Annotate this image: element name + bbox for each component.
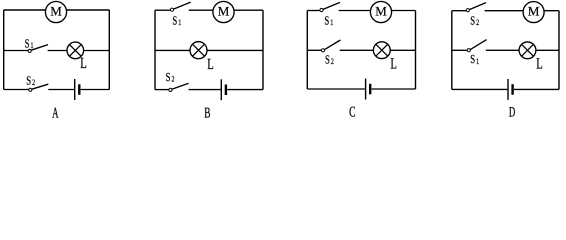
wire: D top edge left segment	[452, 10, 466, 12]
battery (C)	[366, 79, 371, 100]
motor M (C)	[370, 1, 391, 22]
switch S2 (B) pivot	[169, 88, 172, 91]
lamp L (C)	[373, 42, 390, 59]
svg-text:S: S	[25, 38, 30, 51]
label S1 (A)	[25, 38, 34, 51]
wire: C top edge right segment	[339, 10, 416, 12]
wire: D middle branch right segment	[486, 49, 559, 51]
svg-text:M: M	[528, 4, 540, 19]
battery (B)	[221, 79, 226, 100]
wire: A bottom edge right segment	[81, 89, 110, 91]
svg-text:1: 1	[330, 17, 333, 27]
switch S1 (D) blade	[470, 40, 486, 50]
switch S1 (C) blade	[323, 2, 340, 9]
svg-text:M: M	[375, 3, 387, 18]
wire: B bottom edge right segment	[227, 89, 263, 91]
wire: B left edge	[154, 10, 156, 89]
wire: B bottom edge mid segment	[189, 89, 221, 91]
label S1 (D)	[470, 53, 479, 66]
label S1 (B)	[172, 15, 181, 28]
switch S2 (C) blade	[324, 40, 340, 50]
svg-text:S: S	[26, 75, 31, 88]
svg-text:C: C	[349, 103, 355, 120]
wire: C top edge left segment	[307, 10, 320, 12]
lamp L (B)	[190, 42, 207, 59]
svg-text:2: 2	[172, 74, 175, 84]
svg-text:M: M	[50, 3, 62, 18]
wire: D bottom edge right segment	[514, 88, 559, 90]
label S1 (C)	[324, 14, 333, 27]
wire: B top edge right segment	[189, 9, 263, 11]
switch S2 (D) pivot	[466, 9, 469, 12]
svg-text:S: S	[470, 14, 475, 27]
label S2 (B)	[166, 71, 175, 84]
switch S1 (B) pivot	[170, 8, 173, 11]
svg-text:S: S	[166, 71, 171, 84]
svg-text:2: 2	[32, 78, 35, 88]
switch S2 (B) blade	[172, 83, 189, 89]
switch S1 (A) blade	[31, 45, 48, 51]
label S2 (C)	[325, 53, 334, 66]
wire: A right edge	[108, 10, 110, 90]
switch S1 (B) blade	[174, 2, 191, 9]
motor M (A)	[45, 1, 66, 22]
battery (D)	[508, 79, 513, 100]
switch S2 (A) blade	[32, 84, 49, 89]
wire: D middle branch left segment	[452, 49, 467, 51]
svg-text:S: S	[325, 53, 330, 66]
svg-text:1: 1	[476, 56, 479, 66]
svg-text:2: 2	[476, 17, 479, 27]
svg-text:D: D	[509, 103, 515, 120]
switch S2 (C) pivot	[321, 49, 324, 52]
svg-text:B: B	[204, 104, 210, 121]
svg-text:L: L	[536, 56, 543, 73]
motor M (B)	[213, 1, 234, 22]
wire: D right edge	[558, 11, 560, 90]
switch S2 (A) pivot	[29, 88, 32, 91]
svg-text:L: L	[207, 57, 214, 74]
label S2 (D)	[470, 14, 479, 27]
wire: C middle branch left segment	[307, 49, 321, 51]
wire: D bottom edge left segment	[452, 88, 508, 90]
switch S1 (D) pivot	[467, 49, 470, 52]
wire: B bottom edge left segment	[155, 89, 169, 91]
svg-text:S: S	[324, 14, 329, 27]
lamp L (A)	[67, 42, 84, 59]
wire: A middle branch right segment	[48, 50, 110, 52]
svg-text:M: M	[218, 3, 230, 18]
svg-text:1: 1	[178, 18, 181, 28]
switch S2 (D) blade	[469, 3, 486, 10]
label S2 (A)	[26, 75, 35, 88]
wire: B middle branch	[155, 49, 263, 51]
wire: A bottom edge mid segment	[48, 89, 74, 91]
switch S1 (C) pivot	[320, 8, 323, 11]
wire: C bottom edge left segment	[307, 88, 365, 90]
svg-text:S: S	[172, 15, 177, 28]
svg-text:2: 2	[331, 56, 334, 66]
wire: D top edge right segment	[485, 10, 559, 12]
wire: A bottom edge left segment	[4, 89, 29, 91]
wire: B right edge	[262, 10, 264, 89]
wire: B top edge left segment	[155, 9, 170, 11]
lamp L (D)	[519, 42, 536, 59]
svg-text:1: 1	[31, 41, 34, 51]
svg-text:S: S	[470, 53, 475, 66]
wire: A left edge	[3, 10, 5, 90]
switch S1 (A) pivot	[28, 49, 31, 52]
wire: D left edge	[451, 11, 453, 90]
svg-text:L: L	[80, 56, 87, 73]
motor M (D)	[523, 2, 544, 23]
wire: C bottom edge right segment	[372, 88, 416, 90]
wire: A middle branch left segment	[4, 50, 28, 52]
battery (A)	[75, 79, 80, 100]
svg-text:L: L	[390, 56, 397, 73]
wire: C left edge	[306, 11, 308, 90]
wire: C right edge	[415, 11, 417, 90]
svg-text:A: A	[52, 104, 59, 121]
wire: A top edge	[4, 9, 110, 11]
wire: C middle branch right segment	[340, 49, 416, 51]
